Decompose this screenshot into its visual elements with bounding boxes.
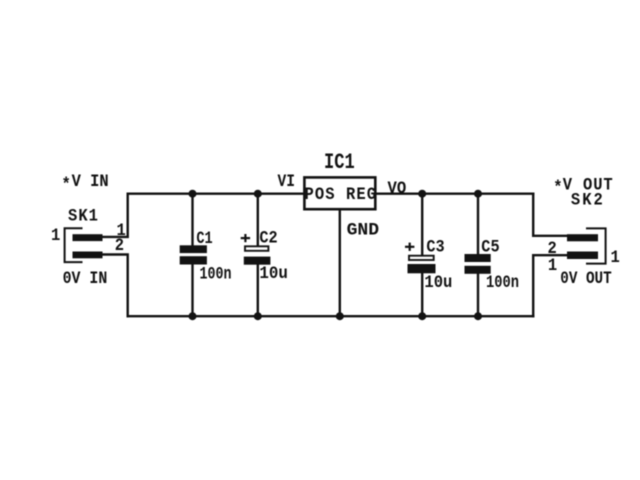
svg-text:0V OUT: 0V OUT (560, 268, 612, 288)
svg-text:0V IN: 0V IN (63, 268, 108, 288)
svg-text:100n: 100n (200, 264, 232, 284)
svg-text:*: * (61, 175, 70, 195)
svg-text:GND: GND (347, 220, 380, 240)
svg-text:100n: 100n (486, 272, 519, 292)
svg-text:V IN: V IN (72, 171, 109, 191)
svg-text:C3: C3 (426, 237, 444, 257)
svg-text:C1: C1 (196, 228, 212, 248)
svg-text:10u: 10u (259, 263, 288, 283)
svg-text:SK2: SK2 (571, 190, 603, 210)
svg-text:1: 1 (548, 255, 557, 275)
svg-text:POS REG: POS REG (304, 184, 376, 204)
svg-text:C5: C5 (481, 237, 499, 257)
svg-text:SK1: SK1 (68, 206, 98, 226)
svg-text:VI: VI (278, 171, 296, 191)
svg-text:1: 1 (51, 225, 60, 245)
svg-text:10u: 10u (424, 272, 452, 292)
svg-text:*: * (553, 178, 562, 198)
svg-text:2: 2 (115, 235, 124, 255)
svg-text:C2: C2 (259, 228, 277, 248)
svg-text:IC1: IC1 (324, 150, 355, 176)
svg-text:VO: VO (388, 178, 407, 198)
svg-text:1: 1 (611, 247, 620, 267)
